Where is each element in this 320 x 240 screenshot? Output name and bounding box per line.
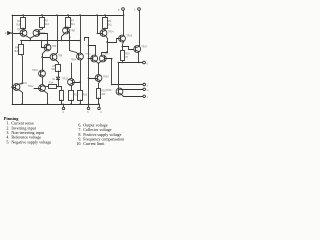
transistor TR10 [32, 70, 45, 77]
svg-text:TR19: TR19 [103, 77, 109, 79]
wire x112 drop [111, 59, 113, 85]
wire TR20 collector to pin 10 [121, 88, 143, 91]
wire bottom supply rail [12, 104, 99, 106]
resistor R5 [51, 59, 60, 72]
transistor TR1 [17, 29, 27, 36]
pin 7 terminal (collector voltage) [134, 8, 140, 46]
svg-text:2k4: 2k4 [45, 23, 50, 26]
wire rail drop x80 upper [79, 14, 81, 53]
transistor TR8 [63, 27, 76, 34]
wire TR21 emitter down [80, 60, 82, 90]
svg-text:TR5: TR5 [52, 46, 57, 48]
wire TR10 to TR12 [42, 77, 44, 85]
svg-text:500: 500 [51, 68, 56, 71]
wire R9 to TR14 collector [104, 28, 106, 30]
wire TR19 base [89, 78, 98, 80]
wire TR13 emitter [71, 85, 73, 90]
pin 4 terminal (reference voltage) [62, 104, 65, 114]
wire R12 to rail [70, 100, 72, 105]
wire output node [118, 61, 142, 64]
svg-text:TR20: TR20 [106, 90, 112, 92]
pin 2 input (inverting input) [5, 31, 12, 35]
pin 3 terminal [98, 104, 103, 114]
resistor R10 [121, 51, 131, 61]
pinning legend [4, 116, 124, 146]
resistor R15 [60, 91, 64, 101]
transistor TR11 [13, 83, 27, 90]
svg-text:TR10: TR10 [32, 70, 38, 72]
transistor TR13 [62, 79, 74, 86]
svg-text:9k1: 9k1 [14, 50, 19, 53]
wire TR13 collector up [71, 63, 73, 79]
resistor R13 [78, 91, 88, 101]
pin 1 terminal (current sense) [143, 95, 149, 99]
wire emitters join [26, 36, 35, 42]
svg-text:TR17: TR17 [104, 53, 110, 55]
svg-text:5.: 5. [6, 139, 9, 144]
transistor TR18 [134, 46, 148, 53]
wire left edge (pin 2 net) [12, 15, 14, 104]
transistor TR15 [85, 53, 97, 61]
transistor TR5 [44, 44, 57, 51]
wire R13 to rail [79, 100, 81, 105]
wire TR8 base chain to TR21 [68, 31, 79, 55]
wire top supply rail [12, 15, 123, 17]
svg-text:R13: R13 [83, 94, 88, 96]
svg-text:5k1: 5k1 [108, 23, 113, 26]
svg-text:TR13: TR13 [62, 79, 68, 81]
wire x88 drop [88, 37, 90, 104]
wire TR12 emitter to rail [44, 91, 49, 105]
pin 9 terminal (frequency compensation) [143, 83, 149, 87]
wire emitters to TR19 [96, 61, 101, 74]
wire TR5 base up [41, 40, 47, 48]
wire TR15 base [89, 58, 93, 60]
resistor R7 [66, 14, 76, 27]
wire TR16 collector to rail [123, 14, 125, 36]
wire TR18 collector to pin7 [139, 45, 141, 48]
wire R16 to rail end [98, 98, 100, 105]
wire mid bus [21, 40, 81, 42]
transistor TR2 [33, 30, 46, 37]
svg-text:TR16: TR16 [126, 36, 132, 38]
transistor TR20 [106, 88, 123, 95]
svg-text:TR14: TR14 [71, 60, 77, 62]
wire R1 to TR1 collector [22, 28, 25, 30]
pin 6 terminal (output) [143, 61, 149, 65]
wire riser to TR15 base line [85, 38, 89, 41]
wire R4 to TR11 collector [22, 55, 23, 84]
wire TR9 base [41, 56, 50, 58]
wire TR17 base [104, 58, 112, 60]
wire TR19 emitter [99, 81, 101, 89]
wire TR14 emitter down [106, 36, 108, 53]
wire R2 to TR2 collector [38, 28, 42, 31]
wire TR5 emitter down [43, 51, 46, 71]
pin 5 terminal (negative supply) [87, 103, 90, 114]
svg-text:TR8: TR8 [70, 30, 75, 32]
transistor TR16 [119, 35, 133, 42]
wire x97 drop to TR14 base [96, 14, 98, 33]
resistor R4 [14, 40, 23, 55]
svg-text:TR1: TR1 [17, 29, 22, 31]
svg-text:R14: R14 [49, 83, 54, 85]
svg-text:TR14: TR14 [108, 31, 114, 33]
svg-text:5k1: 5k1 [71, 23, 76, 26]
svg-text:10.: 10. [76, 141, 81, 146]
svg-text:R10: R10 [125, 53, 130, 55]
wire TR20 emitter to pin 1 [122, 95, 144, 97]
resistor R2 [40, 14, 50, 27]
wire TR16 emitter node [122, 42, 134, 51]
transistor TR12 [28, 85, 45, 92]
wire TR13 base [73, 81, 81, 83]
resistor R14 (horizontal) [44, 83, 57, 89]
wire pin 9 line [111, 84, 143, 86]
pin 10 terminal (current limit) [143, 88, 150, 92]
transistor TR17 [99, 53, 110, 61]
transistor TR21 [71, 53, 84, 62]
svg-text:TR17: TR17 [142, 47, 148, 49]
transistor TR14 [100, 30, 114, 37]
wire TR8 emitter to mid bus [61, 34, 65, 42]
wire TR14 base [97, 33, 102, 35]
wire TR2 base to node [39, 34, 48, 45]
svg-text:TR9: TR9 [58, 55, 63, 57]
svg-text:TR15: TR15 [85, 53, 91, 55]
diode D1 [52, 71, 59, 87]
wire R7 to TR8 [67, 26, 69, 29]
wire pin2 to TR1 base [11, 32, 22, 34]
resistor R12 [69, 91, 79, 101]
wire TR11 collector [18, 83, 23, 85]
resistor R1 [16, 14, 25, 28]
svg-text:Negative supply voltage: Negative supply voltage [11, 139, 51, 144]
svg-text:500: 500 [16, 23, 21, 26]
transistor TR9 [50, 54, 63, 61]
wire TR12 base stub [34, 88, 41, 90]
wire TR11 base [11, 86, 15, 88]
wire R14 to node [57, 86, 62, 91]
svg-text:Current limit: Current limit [83, 141, 105, 146]
wire TR15 collector [89, 46, 96, 56]
wire R15 to rail [61, 100, 63, 105]
wire x118 drop to TR20 [118, 62, 120, 89]
resistor R9 [103, 14, 113, 28]
wire TR17 collector [102, 51, 108, 55]
wire TR9 collector to rail [56, 14, 58, 54]
transistor TR19 [95, 75, 109, 82]
svg-text:TR12: TR12 [28, 86, 34, 88]
wire TR11 emitter to rail [19, 90, 23, 105]
resistor R16 [97, 89, 107, 99]
pin 8 terminal (positive supply) [118, 8, 124, 15]
wire TR18 emitter [138, 52, 140, 63]
wire to TR16 base [108, 39, 121, 43]
